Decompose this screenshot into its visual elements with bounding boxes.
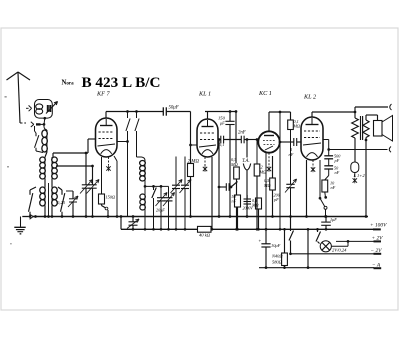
svg-text:N40Ω: N40Ω: [271, 254, 283, 259]
svg-text:KL 1: KL 1: [198, 91, 211, 98]
svg-text:+: +: [259, 240, 262, 245]
svg-text:1μF: 1μF: [330, 217, 337, 222]
svg-text:+ 100V: + 100V: [370, 223, 387, 229]
svg-text:Nora: Nora: [62, 79, 75, 86]
svg-text:20μF: 20μF: [156, 208, 165, 213]
svg-text:pF: pF: [334, 158, 340, 163]
svg-text:10μF: 10μF: [271, 243, 281, 248]
svg-text:580Ω: 580Ω: [272, 260, 283, 265]
svg-text:μF: μF: [220, 121, 225, 126]
svg-text:nF: nF: [331, 185, 336, 190]
svg-text:150Ω: 150Ω: [106, 194, 116, 199]
svg-text:MΩ: MΩ: [263, 183, 271, 188]
svg-text:nF: nF: [289, 152, 294, 157]
svg-text:KC 1: KC 1: [258, 90, 272, 97]
svg-text:KF 7: KF 7: [96, 91, 110, 98]
svg-text:2nF: 2nF: [238, 131, 246, 136]
svg-text:pF: pF: [273, 197, 279, 202]
svg-text:50μF: 50μF: [169, 106, 179, 111]
svg-text:MΩ: MΩ: [293, 124, 301, 129]
svg-text:nF: nF: [232, 199, 237, 204]
svg-text:nF: nF: [335, 170, 340, 175]
svg-text:MΩ: MΩ: [259, 170, 268, 175]
svg-text:KL 2: KL 2: [303, 94, 316, 101]
svg-text:T.A.: T.A.: [242, 159, 250, 164]
svg-text:40 kΩ: 40 kΩ: [199, 233, 211, 238]
svg-text:B 423 L B/C: B 423 L B/C: [82, 74, 161, 91]
svg-text:MΩ: MΩ: [230, 162, 239, 167]
